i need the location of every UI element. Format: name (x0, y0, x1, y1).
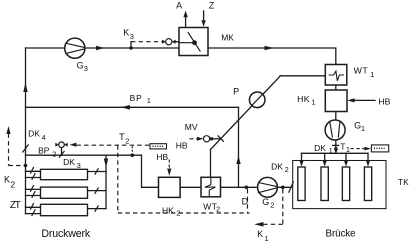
svg-text:1: 1 (265, 234, 269, 243)
svg-text:HB: HB (156, 152, 168, 162)
svg-text:TK: TK (398, 178, 409, 187)
svg-text:G: G (77, 61, 84, 71)
svg-text:DK: DK (271, 162, 283, 172)
svg-text:HK: HK (297, 94, 310, 104)
svg-text:2: 2 (125, 137, 129, 146)
svg-text:DK: DK (314, 143, 326, 153)
svg-text:T: T (119, 132, 125, 142)
svg-text:2: 2 (52, 150, 56, 159)
svg-text:Z: Z (209, 0, 215, 10)
svg-text:ZT: ZT (10, 200, 21, 211)
svg-text:Brücke: Brücke (326, 229, 357, 240)
svg-text:HB: HB (176, 140, 188, 150)
svg-text:K: K (4, 174, 10, 184)
svg-text:BP: BP (38, 146, 50, 156)
svg-text:1: 1 (329, 146, 333, 155)
svg-text:3: 3 (84, 64, 88, 73)
svg-text:DK: DK (63, 157, 75, 167)
svg-text:D: D (242, 196, 249, 206)
svg-text:DK: DK (28, 128, 40, 138)
svg-text:A: A (176, 1, 182, 11)
svg-text:T: T (340, 142, 345, 152)
svg-text:2: 2 (285, 165, 289, 174)
svg-text:Druckwerk: Druckwerk (41, 228, 91, 240)
svg-text:2: 2 (10, 180, 15, 190)
svg-text:3: 3 (77, 161, 81, 170)
svg-text:K: K (257, 229, 263, 239)
svg-text:HK: HK (162, 205, 174, 215)
svg-text:BP: BP (130, 93, 143, 103)
svg-text:2: 2 (270, 201, 274, 210)
svg-text:4: 4 (42, 133, 46, 142)
svg-text:1: 1 (361, 124, 365, 133)
svg-text:WT: WT (354, 65, 369, 75)
svg-text:1: 1 (346, 145, 350, 154)
svg-text:1: 1 (147, 96, 151, 105)
svg-text:K: K (123, 28, 129, 38)
svg-text:HB: HB (378, 96, 390, 106)
svg-text:3: 3 (130, 32, 134, 41)
svg-text:MV: MV (185, 122, 198, 132)
svg-text:P: P (233, 87, 239, 97)
svg-text:2: 2 (216, 205, 220, 214)
svg-text:MK: MK (221, 32, 234, 42)
svg-text:1: 1 (370, 70, 374, 79)
svg-text:2: 2 (176, 209, 180, 218)
svg-text:1: 1 (311, 98, 315, 107)
svg-text:G: G (262, 197, 269, 207)
